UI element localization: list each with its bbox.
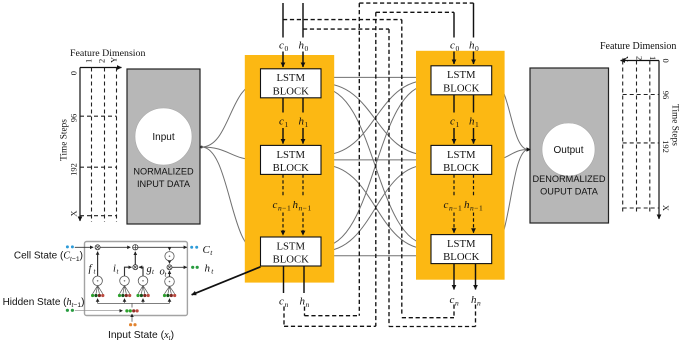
- wire dashed top h (left hn to right h0): [359, 2, 473, 4]
- departure node dots left column: [320, 76, 322, 78]
- wire h1 right arrow into block2: [473, 128, 475, 144]
- g gate neuron: [138, 276, 148, 286]
- wire i gate to ig-multiply: [125, 267, 132, 276]
- svg-text:c: c: [279, 116, 284, 128]
- svg-text:192: 192: [69, 163, 79, 176]
- svg-text:BLOCK: BLOCK: [443, 82, 480, 94]
- f gate neuron: [93, 276, 103, 286]
- LSTM block left 1: [261, 69, 322, 98]
- wire ig multiply up to add: [134, 252, 136, 265]
- wire dashed bottom left hn horizontal: [305, 315, 360, 317]
- wire c1 left arrow into block2: [282, 128, 284, 144]
- svg-text:0: 0: [69, 71, 79, 75]
- wire hn right below block3 with arrow: [475, 264, 477, 290]
- svg-text:0: 0: [285, 44, 289, 53]
- wire g gate to ig-multiply: [139, 267, 143, 276]
- svg-text:1: 1: [475, 120, 479, 129]
- svg-text:1: 1: [285, 120, 289, 129]
- svg-text:1: 1: [458, 204, 462, 213]
- left grid horizontal axis with right arrow: [80, 67, 122, 69]
- right grid horizontal axis with left arrow: [621, 60, 660, 62]
- wire cn left below block3: [283, 266, 285, 293]
- left grid dashed vertical Y: [116, 68, 118, 223]
- inset cell box: [85, 242, 188, 316]
- wire h0 right into block: [473, 52, 475, 65]
- svg-text:Input State (xt): Input State (xt): [108, 330, 174, 342]
- operator multiply on cell line: [95, 245, 100, 250]
- svg-text:OUPUT DATA: OUPUT DATA: [540, 187, 599, 197]
- wire left1 to right3: [321, 88, 429, 244]
- wire dashed bottom right hn horizontal: [389, 326, 476, 328]
- svg-text:Output: Output: [553, 145, 583, 156]
- wire h1 left arrow into block2: [302, 128, 304, 144]
- input circle: [135, 108, 192, 165]
- wire h0 left into block: [302, 52, 304, 68]
- wire left1 to right2: [321, 83, 429, 155]
- left grid dashed vertical 2: [104, 68, 106, 223]
- wire left3 to right3: [321, 255, 429, 257]
- right grid dashed vertical Y: [622, 61, 624, 215]
- svg-text:t: t: [211, 267, 214, 276]
- svg-text:Time Steps: Time Steps: [60, 119, 70, 161]
- wire cell line down to tanh: [169, 247, 171, 250]
- left grid dashed row 96: [80, 115, 117, 117]
- svg-text:LSTM: LSTM: [276, 240, 305, 252]
- svg-text:DENORMALIZED: DENORMALIZED: [533, 174, 606, 184]
- cell state input blue dots: [66, 245, 69, 248]
- wire c0 left into block: [282, 52, 284, 68]
- o gate neuron: [165, 277, 175, 287]
- svg-text:2: 2: [97, 59, 107, 63]
- wire left3 to right1: [321, 85, 429, 247]
- tanh neuron: [165, 252, 174, 261]
- gate input dots i: [118, 286, 131, 298]
- output arrowhead: [527, 147, 531, 151]
- svg-text:BLOCK: BLOCK: [443, 162, 480, 174]
- svg-text:1: 1: [479, 204, 483, 213]
- svg-text:c: c: [279, 40, 284, 52]
- wire c0 right top: [453, 12, 455, 37]
- wire right2 to output: [492, 150, 528, 160]
- wire left2 to right1: [321, 80, 429, 155]
- wire c1 right arrow into block2: [453, 128, 455, 144]
- wire hidden state into concat cluster: [75, 310, 123, 312]
- svg-text:n: n: [306, 300, 310, 309]
- svg-text:c: c: [450, 294, 455, 306]
- wire c1 right upper segment: [453, 95, 455, 113]
- wire hn-1 left dashed upper: [302, 174, 304, 196]
- output circle: [542, 123, 595, 176]
- right grid vertical axis with down arrow: [658, 61, 660, 220]
- wire f gate up to multiply: [97, 252, 99, 276]
- departure node dots right column: [491, 79, 493, 81]
- input data box: [127, 69, 200, 224]
- wire input to left block 2: [202, 147, 259, 160]
- svg-text:n: n: [477, 299, 481, 308]
- wire tanh down to o-multiply: [169, 261, 171, 264]
- wire cell state line: [75, 246, 93, 248]
- svg-text:c: c: [450, 116, 455, 128]
- operator add on cell line: [133, 245, 138, 250]
- svg-text:t: t: [210, 248, 213, 257]
- svg-text:g: g: [147, 264, 152, 275]
- svg-text:LSTM: LSTM: [447, 149, 476, 161]
- wire hn-1 left dashed arrow into block3: [302, 213, 304, 236]
- svg-text:1: 1: [648, 56, 658, 60]
- wire bus center drop to concat cluster: [131, 303, 133, 307]
- operator ig multiply: [133, 265, 138, 270]
- svg-text:Feature Dimension: Feature Dimension: [600, 41, 676, 52]
- svg-text:c: c: [273, 199, 278, 211]
- svg-text:0: 0: [456, 44, 460, 53]
- wire dashed vertical v1: [358, 3, 360, 316]
- wire bus drops with up arrows: [97, 299, 99, 304]
- output data box: [530, 68, 609, 223]
- wire dashed bottom left cn drop: [283, 307, 285, 327]
- i gate neuron: [120, 276, 130, 286]
- input fan node: [200, 146, 203, 149]
- wire dashed vertical v2: [375, 12, 377, 326]
- svg-text:1: 1: [456, 120, 460, 129]
- left grid dashed vertical 1: [91, 68, 93, 223]
- svg-text:BLOCK: BLOCK: [273, 254, 310, 266]
- svg-text:BLOCK: BLOCK: [443, 251, 480, 263]
- gate input dots g: [136, 286, 149, 298]
- wire right1 to output: [492, 80, 528, 149]
- concat cluster dots: [125, 309, 128, 312]
- LSTM block left 3: [261, 237, 322, 266]
- wire dashed vertical v4: [401, 20, 403, 316]
- operator o multiply: [167, 265, 172, 270]
- wire c1 left upper segment: [282, 98, 284, 113]
- svg-text:0: 0: [661, 59, 671, 63]
- wire dashed top to left c0 (from right cn): [283, 19, 402, 21]
- svg-text:X: X: [661, 205, 671, 211]
- LSTM block right 2: [431, 145, 492, 174]
- svg-text:X: X: [69, 210, 79, 216]
- svg-text:−: −: [474, 204, 478, 213]
- wire o gate up to o-multiply: [169, 271, 171, 277]
- svg-text:96: 96: [661, 91, 671, 100]
- wire h0 left top: [302, 3, 304, 38]
- wire hn left below block3: [303, 266, 305, 293]
- svg-text:BLOCK: BLOCK: [273, 85, 310, 97]
- svg-text:Time Steps: Time Steps: [670, 104, 680, 146]
- cell state output blue dots: [190, 246, 193, 249]
- left LSTM column background: [245, 55, 334, 283]
- svg-text:96: 96: [69, 114, 79, 123]
- wire dashed bottom right cn drop: [453, 305, 455, 318]
- svg-text:−: −: [282, 204, 286, 213]
- wire c0 right into block: [453, 52, 455, 65]
- wire hn-1 right dashed upper: [473, 174, 475, 196]
- svg-text:1: 1: [305, 120, 309, 129]
- svg-text:−: −: [303, 204, 307, 213]
- right grid dashed row X: [623, 207, 659, 209]
- svg-text:Input: Input: [152, 132, 174, 143]
- svg-text:0: 0: [475, 44, 479, 53]
- svg-text:LSTM: LSTM: [276, 149, 305, 161]
- right grid dashed row 192: [623, 142, 659, 144]
- right grid dashed row 96: [623, 94, 659, 96]
- left grid dashed row X: [80, 215, 117, 217]
- wire cn-1 left dashed arrow into block3: [282, 213, 284, 236]
- wire left2 to right2: [321, 159, 429, 161]
- right grid dashed vertical 1: [649, 61, 651, 215]
- wire dashed bottom right hn drop: [475, 305, 477, 327]
- wire dashed vertical v3: [388, 29, 390, 326]
- svg-text:2: 2: [635, 56, 645, 60]
- svg-text:INPUT DATA: INPUT DATA: [137, 179, 191, 189]
- svg-text:Y: Y: [109, 57, 119, 63]
- wire left3 to right2: [321, 165, 429, 252]
- gate input dots f: [91, 286, 104, 298]
- svg-text:LSTM: LSTM: [447, 238, 476, 250]
- input state orange dots: [129, 323, 132, 326]
- LSTM block left 2: [261, 145, 322, 174]
- svg-text:Hidden State (ht−1): Hidden State (ht−1): [3, 297, 85, 309]
- svg-text:LSTM: LSTM: [276, 72, 305, 84]
- wire h1 right upper segment: [473, 95, 475, 113]
- inset zoom arrow from left block3: [192, 267, 261, 295]
- svg-text:n: n: [285, 300, 289, 309]
- wire cn-1 right dashed upper: [453, 174, 455, 196]
- svg-text:1: 1: [308, 204, 312, 213]
- wire hn-1 right dashed arrow into block3: [473, 213, 475, 233]
- wire c0 left top: [282, 3, 284, 38]
- svg-text:Cell State (Ct−1): Cell State (Ct−1): [14, 251, 83, 263]
- wire cn right below block3 with arrow: [453, 264, 455, 290]
- wire input to left block 1: [202, 83, 259, 147]
- gate input dots o: [163, 286, 176, 297]
- svg-text:c: c: [450, 40, 455, 52]
- wire dashed bottom left cn horizontal: [284, 325, 376, 327]
- hidden output green dots: [191, 266, 194, 269]
- svg-text:1: 1: [84, 59, 94, 63]
- wire h0 right top: [473, 3, 475, 37]
- svg-text:c: c: [279, 296, 284, 308]
- svg-text:1: 1: [287, 204, 291, 213]
- svg-text:LSTM: LSTM: [447, 69, 476, 81]
- wire left2 to right3: [321, 165, 429, 250]
- wire input to left block 3: [202, 147, 259, 252]
- LSTM block right 1: [431, 66, 492, 95]
- wire cn-1 left dashed upper: [282, 174, 284, 196]
- wire hidden output line: [172, 266, 187, 268]
- wire right3 to output: [492, 150, 528, 250]
- wire left1 to right1: [321, 76, 429, 78]
- wire dashed top to left h0 (from right hn): [303, 28, 389, 30]
- svg-text:NORMALIZED: NORMALIZED: [133, 167, 194, 177]
- svg-text:192: 192: [661, 140, 671, 153]
- left grid vertical axis with down arrow: [79, 68, 81, 222]
- wire dashed bottom left hn drop: [304, 307, 306, 316]
- svg-text:−: −: [453, 204, 457, 213]
- svg-text:h: h: [205, 262, 211, 274]
- svg-text:0: 0: [305, 44, 309, 53]
- hidden state green dots: [66, 309, 69, 312]
- right LSTM column background: [416, 51, 505, 280]
- svg-text:C: C: [203, 244, 211, 256]
- right grid dashed vertical 2: [636, 61, 638, 215]
- wire distribution bus: [98, 302, 170, 304]
- svg-text:c: c: [444, 199, 449, 211]
- wire dashed top c (left cn to right c0): [376, 11, 454, 13]
- svg-text:n: n: [455, 299, 459, 308]
- wire input state up to concat cluster: [131, 314, 133, 322]
- wire h1 left upper segment: [302, 98, 304, 113]
- left grid dashed row 192: [80, 166, 117, 168]
- LSTM block right 3: [431, 235, 492, 264]
- wire cn-1 right dashed arrow into block3: [453, 213, 455, 233]
- wire dashed bottom right cn horizontal: [402, 317, 454, 319]
- svg-text:BLOCK: BLOCK: [273, 162, 310, 174]
